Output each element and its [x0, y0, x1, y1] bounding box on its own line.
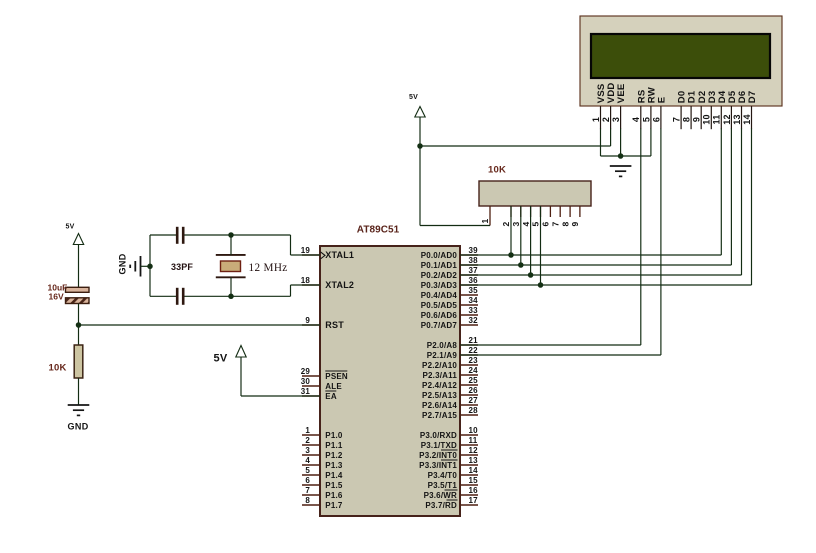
wire RP1 pin 4 to P0.2 net: [530, 206, 532, 275]
svg-text:4: 4: [631, 117, 641, 122]
U1 pin 10 P3.0/RXD (right): [460, 434, 478, 436]
svg-text:5V: 5V: [214, 353, 228, 365]
node RP1 pin 3 junction: [518, 262, 524, 268]
svg-text:33: 33: [469, 306, 479, 315]
svg-text:5: 5: [531, 222, 541, 227]
wire C1 to crystal top node: [185, 234, 232, 236]
svg-text:11: 11: [712, 115, 722, 125]
wire U1 P0.1 to LCD D5: [460, 264, 731, 266]
wire 5V to EA pin: [240, 357, 242, 396]
svg-text:29: 29: [301, 367, 311, 376]
svg-text:PSEN: PSEN: [325, 372, 348, 381]
svg-text:7: 7: [672, 117, 682, 122]
svg-text:8: 8: [682, 117, 692, 122]
svg-text:7: 7: [305, 486, 310, 495]
RP1 pin 7 stub and number: [559, 206, 561, 217]
svg-text:AT89C51: AT89C51: [357, 225, 400, 236]
svg-text:24: 24: [469, 366, 479, 375]
svg-text:P2.5/A13: P2.5/A13: [422, 391, 457, 400]
svg-text:2: 2: [305, 436, 310, 445]
svg-text:37: 37: [469, 266, 479, 275]
U1 pin 8 P1.7 (left): [302, 504, 320, 506]
U1 pin 15 P3.5/T1 (right): [460, 484, 478, 486]
wire ground to crystal net: [141, 265, 151, 267]
wire R1 to ground: [78, 378, 80, 405]
svg-text:P1.0: P1.0: [325, 431, 343, 440]
svg-text:3: 3: [511, 222, 521, 227]
svg-text:P3.5/T1: P3.5/T1: [428, 481, 458, 490]
svg-text:18: 18: [301, 276, 311, 285]
U1 pin 36 P0.3/AD3 (right): [460, 284, 478, 286]
wire U1 P0.2 to LCD D6: [460, 274, 742, 276]
node 5V supply junction: [417, 143, 423, 149]
U1 pin 23 P2.2/A10 (right): [460, 364, 478, 366]
svg-text:P2.1/A9: P2.1/A9: [427, 351, 458, 360]
svg-text:P3.1/TXD: P3.1/TXD: [421, 441, 457, 450]
svg-text:31: 31: [301, 387, 311, 396]
U1 pin 25 P2.4/A12 (right): [460, 384, 478, 386]
svg-text:6: 6: [305, 476, 310, 485]
svg-text:XTAL1: XTAL1: [325, 250, 354, 260]
svg-text:16V: 16V: [49, 292, 64, 302]
svg-text:P2.2/A10: P2.2/A10: [422, 361, 457, 370]
svg-text:ALE: ALE: [325, 382, 342, 391]
svg-text:P1.2: P1.2: [325, 451, 343, 460]
svg-text:GND: GND: [68, 422, 89, 432]
svg-text:30: 30: [301, 377, 311, 386]
wire LCD VSS to ground bus: [600, 129, 602, 157]
svg-text:P2.4/A12: P2.4/A12: [422, 381, 457, 390]
U1 pin 12 P3.2/INT0 (right): [460, 454, 478, 456]
svg-text:9: 9: [692, 117, 702, 122]
svg-text:10K: 10K: [49, 363, 67, 374]
svg-text:P2.3/A11: P2.3/A11: [422, 371, 457, 380]
node RP1 pin 5 junction: [538, 282, 544, 288]
ground symbol GND (reset circuit): [68, 404, 90, 406]
svg-text:P2.7/A15: P2.7/A15: [422, 411, 457, 420]
svg-text:22: 22: [469, 346, 479, 355]
svg-text:XTAL2: XTAL2: [325, 280, 354, 290]
svg-text:P2.6/A14: P2.6/A14: [422, 401, 457, 410]
capacitor C2 33PF plates: [176, 288, 179, 305]
svg-text:36: 36: [469, 276, 479, 285]
wire top branch to capacitor C1: [150, 234, 176, 236]
svg-text:D7: D7: [747, 91, 758, 104]
svg-text:4: 4: [305, 456, 310, 465]
wire RST node to U1 RST pin: [79, 324, 321, 326]
svg-text:P3.0/RXD: P3.0/RXD: [420, 431, 457, 440]
svg-text:16: 16: [469, 486, 479, 495]
svg-text:P3.3/INT1: P3.3/INT1: [419, 461, 457, 470]
wire crystal top node to XTAL1 corner: [231, 234, 291, 236]
capacitor C1 33PF plates: [176, 227, 179, 244]
svg-text:P2.0/A8: P2.0/A8: [427, 341, 458, 350]
svg-text:VEE: VEE: [616, 84, 627, 104]
wire supply node to LCD VDD: [420, 145, 611, 147]
svg-text:P0.6/AD6: P0.6/AD6: [421, 311, 458, 320]
U1 pin 19 XTAL1 (left): [302, 254, 320, 256]
svg-text:33PF: 33PF: [171, 262, 193, 272]
node RP1 pin 2 junction: [508, 252, 514, 258]
U1 pin 4 P1.3 (left): [302, 464, 320, 466]
U1 pin 3 P1.2 (left): [302, 454, 320, 456]
wire RP1 pin 5 to P0.3 net: [540, 206, 542, 285]
wire C2 to crystal bottom node: [185, 295, 232, 297]
U1 pin 22 P2.1/A9 (right): [460, 354, 478, 356]
svg-text:3: 3: [305, 446, 310, 455]
U1 XTAL1 clock chevron: [320, 252, 325, 259]
ground symbol GND (LCD): [610, 165, 632, 167]
svg-text:1: 1: [305, 426, 310, 435]
svg-text:11: 11: [469, 436, 478, 445]
crystal X1 body: [221, 261, 241, 272]
wire 5V down to supply node: [419, 117, 421, 146]
wire LCD E to U1 P2.1: [660, 129, 662, 356]
svg-text:P1.1: P1.1: [325, 441, 343, 450]
U1 pin 26 P2.5/A13 (right): [460, 394, 478, 396]
svg-text:32: 32: [469, 316, 479, 325]
RP1 pin 2 stub and number: [510, 206, 512, 217]
wire LCD VEE to ground bus: [620, 129, 622, 157]
svg-text:6: 6: [651, 117, 661, 122]
svg-text:P0.2/AD2: P0.2/AD2: [421, 271, 458, 280]
svg-text:23: 23: [469, 356, 479, 365]
svg-text:26: 26: [469, 386, 479, 395]
U1 pin 29 PSEN (left): [302, 375, 320, 377]
svg-text:P0.1/AD1: P0.1/AD1: [421, 261, 458, 270]
svg-text:5V: 5V: [66, 224, 75, 231]
svg-text:12 MHz: 12 MHz: [249, 262, 288, 274]
wire LCD RW to ground bus: [650, 129, 652, 157]
U1 pin 21 P2.0/A8 (right): [460, 344, 478, 346]
U1 pin 38 P0.1/AD1 (right): [460, 264, 478, 266]
RP1 pin 1 stub and number: [489, 206, 491, 226]
U1 pin 6 P1.5 (left): [302, 484, 320, 486]
svg-text:5V: 5V: [409, 94, 418, 101]
RP1 pin 6 stub and number: [549, 206, 551, 217]
node crystal bottom: [228, 294, 234, 300]
svg-text:P0.3/AD3: P0.3/AD3: [421, 281, 458, 290]
U1 pin 37 P0.2/AD2 (right): [460, 274, 478, 276]
svg-text:28: 28: [469, 406, 479, 415]
capacitor C3 10uF 16V top plate: [66, 287, 90, 292]
U1 pin 7 P1.6 (left): [302, 494, 320, 496]
svg-text:1: 1: [480, 219, 490, 224]
svg-text:2: 2: [601, 117, 611, 122]
U1 pin 32 P0.7/AD7 (right): [460, 324, 478, 326]
svg-text:P1.5: P1.5: [325, 481, 343, 490]
U1 pin 17 P3.7/RD (right): [460, 504, 478, 506]
U1 pin 28 P2.7/A15 (right): [460, 414, 478, 416]
RP1 pin 4 stub and number: [530, 206, 532, 217]
wire U1 P0.0 to LCD D4: [460, 254, 721, 256]
U1 pin 27 P2.6/A14 (right): [460, 404, 478, 406]
svg-text:15: 15: [469, 476, 479, 485]
wire crystal bottom node to XTAL2 corner: [231, 295, 291, 297]
node crystal top: [228, 232, 234, 238]
svg-text:3: 3: [611, 117, 621, 122]
svg-text:5: 5: [641, 117, 651, 122]
svg-text:6: 6: [541, 222, 551, 227]
U1 pin 1 P1.0 (left): [302, 434, 320, 436]
wire RP1 pin 2 to P0.0 net: [510, 206, 512, 255]
svg-text:12: 12: [722, 114, 732, 124]
svg-text:GND: GND: [118, 253, 128, 274]
resistor R1 10K body: [74, 345, 83, 378]
U1 pin 11 P3.1/TXD (right): [460, 444, 478, 446]
svg-text:P0.4/AD4: P0.4/AD4: [421, 291, 458, 300]
svg-text:E: E: [657, 97, 668, 104]
svg-text:RST: RST: [325, 320, 344, 330]
U1 pin 33 P0.6/AD6 (right): [460, 314, 478, 316]
node crystal ground junction: [147, 264, 153, 270]
svg-text:EA: EA: [325, 392, 337, 401]
svg-text:P1.6: P1.6: [325, 491, 343, 500]
svg-text:P3.7/RD: P3.7/RD: [425, 501, 457, 510]
svg-text:10: 10: [469, 426, 479, 435]
svg-text:8: 8: [305, 496, 310, 505]
svg-text:8: 8: [560, 222, 570, 227]
U1 pin 13 P3.3/INT1 (right): [460, 464, 478, 466]
wire bottom branch to capacitor C2: [150, 295, 176, 297]
wire supply node down to RP1 pin 1: [419, 146, 421, 226]
svg-text:7: 7: [550, 222, 560, 227]
svg-text:21: 21: [469, 336, 479, 345]
svg-text:35: 35: [469, 286, 479, 295]
svg-text:27: 27: [469, 396, 479, 405]
LCD module LCD1 body: [580, 16, 782, 106]
U1 pin 5 P1.4 (left): [302, 474, 320, 476]
U1 pin 16 P3.6/WR (right): [460, 494, 478, 496]
wire RP1 pin 3 to P0.1 net: [520, 206, 522, 265]
svg-text:P1.3: P1.3: [325, 461, 343, 470]
U1 pin 18 XTAL2 (left): [302, 284, 320, 286]
svg-text:39: 39: [469, 246, 479, 255]
svg-text:12: 12: [469, 446, 479, 455]
svg-text:17: 17: [469, 496, 479, 505]
RP1 pin 9 stub and number: [579, 206, 581, 217]
svg-text:P1.4: P1.4: [325, 471, 343, 480]
U1 pin 24 P2.3/A11 (right): [460, 374, 478, 376]
resistor pack RP1 10K body: [479, 181, 591, 206]
wire LCD RS to U1 P2.0: [640, 129, 642, 346]
svg-text:13: 13: [469, 456, 479, 465]
U1 pin 39 P0.0/AD0 (right): [460, 254, 478, 256]
RP1 pin 3 stub and number: [520, 206, 522, 217]
wire crystal net vertical: [149, 235, 151, 296]
wire 5V to capacitor C3: [78, 245, 80, 288]
svg-text:14: 14: [469, 466, 479, 475]
LCD screen: [591, 34, 770, 78]
svg-text:P0.7/AD7: P0.7/AD7: [421, 321, 458, 330]
U1 pin 35 P0.4/AD4 (right): [460, 294, 478, 296]
svg-text:19: 19: [301, 246, 311, 255]
RP1 pin 8 stub and number: [569, 206, 571, 217]
svg-text:10: 10: [702, 114, 712, 124]
U1 pin 9 RST (left): [302, 324, 320, 326]
svg-text:10K: 10K: [488, 165, 506, 176]
svg-text:P0.0/AD0: P0.0/AD0: [421, 251, 458, 260]
U1 pin 30 ALE (left): [302, 385, 320, 387]
crystal X1 12MHz top plate: [216, 254, 246, 256]
svg-text:P3.6/WR: P3.6/WR: [424, 491, 457, 500]
node RST junction: [76, 322, 82, 328]
svg-text:25: 25: [469, 376, 479, 385]
svg-text:14: 14: [742, 114, 752, 124]
node RP1 pin 4 junction: [528, 272, 534, 278]
wire ground bus horizontal: [601, 155, 651, 157]
svg-text:P1.7: P1.7: [325, 501, 343, 510]
U1 pin 14 P3.4/T0 (right): [460, 474, 478, 476]
U1 pin 34 P0.5/AD5 (right): [460, 304, 478, 306]
svg-text:9: 9: [570, 222, 580, 227]
wire U1 P0.3 to LCD D7: [460, 284, 752, 286]
crystal X1 bottom plate: [216, 276, 246, 278]
svg-text:13: 13: [732, 114, 742, 124]
svg-text:P0.5/AD5: P0.5/AD5: [421, 301, 458, 310]
node ground bus junction: [618, 153, 624, 159]
svg-text:4: 4: [521, 222, 531, 227]
svg-text:5: 5: [305, 466, 310, 475]
U1 pin 2 P1.1 (left): [302, 444, 320, 446]
svg-text:38: 38: [469, 256, 479, 265]
svg-text:P3.4/T0: P3.4/T0: [428, 471, 458, 480]
IC U1 AT89C51 body: [320, 246, 460, 516]
svg-text:1: 1: [591, 117, 601, 122]
svg-text:P3.2/INT0: P3.2/INT0: [419, 451, 457, 460]
RP1 pin 5 stub and number: [540, 206, 542, 217]
U1 pin 31 EA (left): [302, 395, 320, 397]
svg-text:34: 34: [469, 296, 479, 305]
svg-text:2: 2: [501, 222, 511, 227]
wire crystal vertical connections: [230, 235, 232, 255]
svg-text:9: 9: [305, 316, 310, 325]
wire C3 to RST node: [78, 304, 80, 346]
